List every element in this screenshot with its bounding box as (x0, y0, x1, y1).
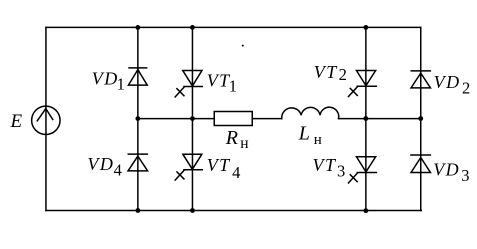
svg-text:VT: VT (313, 155, 337, 175)
svg-text:1: 1 (229, 76, 237, 95)
svg-text:VD: VD (433, 160, 460, 180)
svg-text:VT: VT (207, 155, 231, 175)
svg-text:VD: VD (87, 154, 114, 174)
svg-text:R: R (225, 127, 238, 149)
svg-text:VT: VT (314, 62, 338, 82)
svg-text:E: E (10, 111, 23, 132)
svg-text:VD: VD (434, 72, 461, 92)
svg-text:2: 2 (339, 65, 347, 84)
svg-text:н: н (314, 132, 322, 148)
svg-text:н: н (240, 135, 248, 152)
svg-text:3: 3 (461, 166, 469, 185)
svg-text:2: 2 (462, 78, 470, 97)
svg-text:VT: VT (207, 70, 231, 90)
svg-text:4: 4 (114, 160, 122, 179)
svg-text:VD: VD (92, 69, 119, 89)
svg-text:3: 3 (337, 161, 345, 180)
svg-text:1: 1 (117, 74, 125, 93)
svg-text:L: L (298, 123, 310, 145)
svg-text:4: 4 (232, 163, 240, 182)
